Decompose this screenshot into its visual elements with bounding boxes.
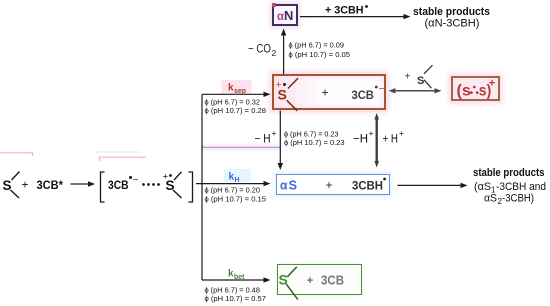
arrow reactants to radical pair bbox=[71, 181, 96, 186]
label 3CB radical anion in red box bbox=[352, 83, 385, 103]
svg-text:S: S bbox=[278, 87, 287, 103]
text alpha-N in purple box bbox=[277, 8, 293, 23]
svg-text:+: + bbox=[399, 128, 404, 138]
svg-text:H: H bbox=[235, 177, 240, 184]
dots separator in radical pair bbox=[142, 183, 160, 186]
artifact red corner mark on alpha-N box bbox=[272, 3, 276, 7]
label 3CBH radical in blue box bbox=[352, 178, 386, 193]
quantum yields decarboxylation bbox=[289, 43, 351, 60]
svg-text:ϕ (pH 10.7) = 0.57: ϕ (pH 10.7) = 0.57 bbox=[205, 296, 267, 303]
resonance double arrow to dimer bbox=[389, 88, 442, 93]
svg-text:-3CBH): -3CBH) bbox=[502, 192, 534, 204]
svg-text:3CB: 3CB bbox=[108, 178, 129, 192]
quantum yields deprotonation bbox=[284, 132, 345, 148]
text alphaS2-3CBH) bbox=[484, 192, 534, 206]
label k_sep bbox=[222, 80, 252, 95]
box alpha-S / 3CBH (blue) bbox=[276, 174, 390, 196]
svg-text:S: S bbox=[417, 75, 424, 87]
svg-text:sep: sep bbox=[234, 88, 246, 95]
box radical cation S+ / 3CB (red-brown) bbox=[272, 74, 386, 110]
svg-text:stable products: stable products bbox=[473, 167, 545, 179]
label -H+ left bbox=[255, 128, 277, 146]
label + 3CBH radical bbox=[325, 4, 368, 16]
label k_bet bbox=[228, 269, 245, 281]
svg-text:+: + bbox=[22, 178, 29, 192]
text (S:.S)+ in dimer box bbox=[457, 77, 496, 99]
svg-text:3CBH: 3CBH bbox=[352, 178, 383, 192]
svg-text:+: + bbox=[322, 85, 329, 99]
reactant sulfide S structure bbox=[3, 172, 20, 199]
svg-text:3CB: 3CB bbox=[352, 88, 375, 102]
box (S:.S)+ dimer (red-brown) bbox=[451, 76, 501, 101]
svg-text:stable products: stable products bbox=[413, 6, 490, 18]
svg-text:ϕ (pH 10.7) = 0.05: ϕ (pH 10.7) = 0.05 bbox=[289, 52, 351, 59]
branch trunk vertical line bbox=[201, 94, 203, 280]
svg-text:3CB*: 3CB* bbox=[37, 178, 64, 192]
svg-text:+: + bbox=[405, 72, 411, 83]
text (alphaN-3CBH) bbox=[425, 17, 480, 29]
svg-text:+: + bbox=[326, 178, 333, 192]
arrow blue box to stable products bbox=[398, 183, 468, 188]
text alpha-S in blue box bbox=[280, 178, 297, 192]
svg-text:ϕ (pH 6.7) = 0.09: ϕ (pH 6.7) = 0.09 bbox=[289, 43, 345, 50]
svg-text:–: – bbox=[379, 83, 384, 93]
arrow k_H to blue box bbox=[196, 181, 271, 186]
svg-text:(s: (s bbox=[457, 82, 472, 99]
svg-text:+: + bbox=[307, 273, 314, 287]
svg-text:+ H: + H bbox=[383, 134, 399, 146]
artifact pink elbow line left bbox=[0, 153, 33, 156]
svg-text:−H: −H bbox=[353, 134, 368, 146]
svg-text:+: + bbox=[272, 128, 277, 138]
arrow decarboxylation up to alpha-N bbox=[281, 29, 286, 75]
label +H+ bbox=[383, 128, 405, 146]
bracket right of radical ion pair bbox=[189, 172, 193, 202]
label -H+ right bbox=[353, 128, 374, 146]
svg-text:ϕ (pH 10.7) = 0.15: ϕ (pH 10.7) = 0.15 bbox=[205, 197, 267, 204]
label 3CB in green box bbox=[321, 274, 344, 288]
svg-text:ϕ (pH 6.7) = 0.23: ϕ (pH 6.7) = 0.23 bbox=[284, 132, 339, 139]
box alpha-N (purple) bbox=[272, 4, 298, 27]
svg-text:ϕ (pH 6.7) = 0.20: ϕ (pH 6.7) = 0.20 bbox=[205, 188, 261, 195]
arrow deprotonation red to blue bbox=[278, 111, 283, 171]
artifact cyan band with pink core bbox=[202, 144, 280, 152]
sulfide S structure in green box bbox=[279, 267, 298, 300]
svg-text:N: N bbox=[284, 8, 293, 23]
svg-text:–: – bbox=[133, 174, 138, 184]
quantum yields k_sep bbox=[205, 100, 267, 115]
svg-text:− H: − H bbox=[255, 134, 271, 146]
label k_H bbox=[224, 169, 251, 184]
svg-text:+: + bbox=[369, 128, 374, 138]
text stable products (middle) bbox=[473, 167, 545, 179]
svg-text:− CO: − CO bbox=[248, 44, 271, 56]
svg-text:(αS: (αS bbox=[474, 181, 491, 193]
plus sign in blue box bbox=[326, 178, 333, 192]
svg-text:bet: bet bbox=[234, 274, 245, 281]
text stable products (top) bbox=[413, 6, 490, 18]
artifact pink line over bracket bbox=[100, 157, 147, 161]
quantum yields k_bet bbox=[205, 287, 267, 303]
svg-text:S: S bbox=[289, 178, 298, 192]
artifact cyan segment bbox=[96, 151, 140, 153]
svg-text:ϕ (pH 10.7) = 0.23: ϕ (pH 10.7) = 0.23 bbox=[284, 140, 345, 147]
arrow k_bet to green box bbox=[202, 277, 271, 282]
svg-text:αS: αS bbox=[484, 192, 497, 204]
radical cation S+ structure in red box bbox=[276, 78, 299, 111]
svg-text:ϕ (pH 10.7) = 0.28: ϕ (pH 10.7) = 0.28 bbox=[205, 108, 267, 115]
plus sign in red box bbox=[322, 85, 329, 99]
svg-text:α: α bbox=[280, 178, 288, 192]
box S / 3CB (green) bbox=[277, 264, 362, 296]
arrow alpha-N to stable products bbox=[300, 14, 411, 19]
equilibrium double arrow -H+/+H+ bbox=[374, 113, 379, 168]
label + S sulfide above dimer arrow bbox=[405, 65, 433, 88]
sulfide radical cation S+ in pair bbox=[163, 172, 182, 199]
quantum yields k_H bbox=[205, 188, 267, 204]
svg-text:2: 2 bbox=[272, 48, 277, 58]
svg-text:+: + bbox=[489, 77, 495, 89]
arrow k_sep to red box bbox=[202, 92, 271, 97]
label 3CB* excited carboxybenzophenone bbox=[37, 178, 64, 192]
svg-text:-3CBH and: -3CBH and bbox=[496, 181, 546, 193]
label -CO2 bbox=[248, 44, 277, 59]
svg-text:S: S bbox=[3, 178, 12, 193]
bracket left of radical ion pair bbox=[101, 172, 105, 202]
text (alphaS1-3CBH and bbox=[474, 181, 546, 195]
svg-text:ϕ (pH 6.7) = 0.32: ϕ (pH 6.7) = 0.32 bbox=[205, 100, 261, 107]
plus sign in green box bbox=[307, 273, 314, 287]
svg-text:3CB: 3CB bbox=[321, 274, 344, 288]
svg-text:ϕ (pH 6.7) = 0.48: ϕ (pH 6.7) = 0.48 bbox=[205, 287, 261, 294]
svg-text:+ 3CBH: + 3CBH bbox=[325, 4, 364, 16]
svg-text:(αN-3CBH): (αN-3CBH) bbox=[425, 17, 480, 29]
plus sign reactants bbox=[22, 178, 29, 192]
label 3CB radical anion bbox=[108, 174, 138, 193]
